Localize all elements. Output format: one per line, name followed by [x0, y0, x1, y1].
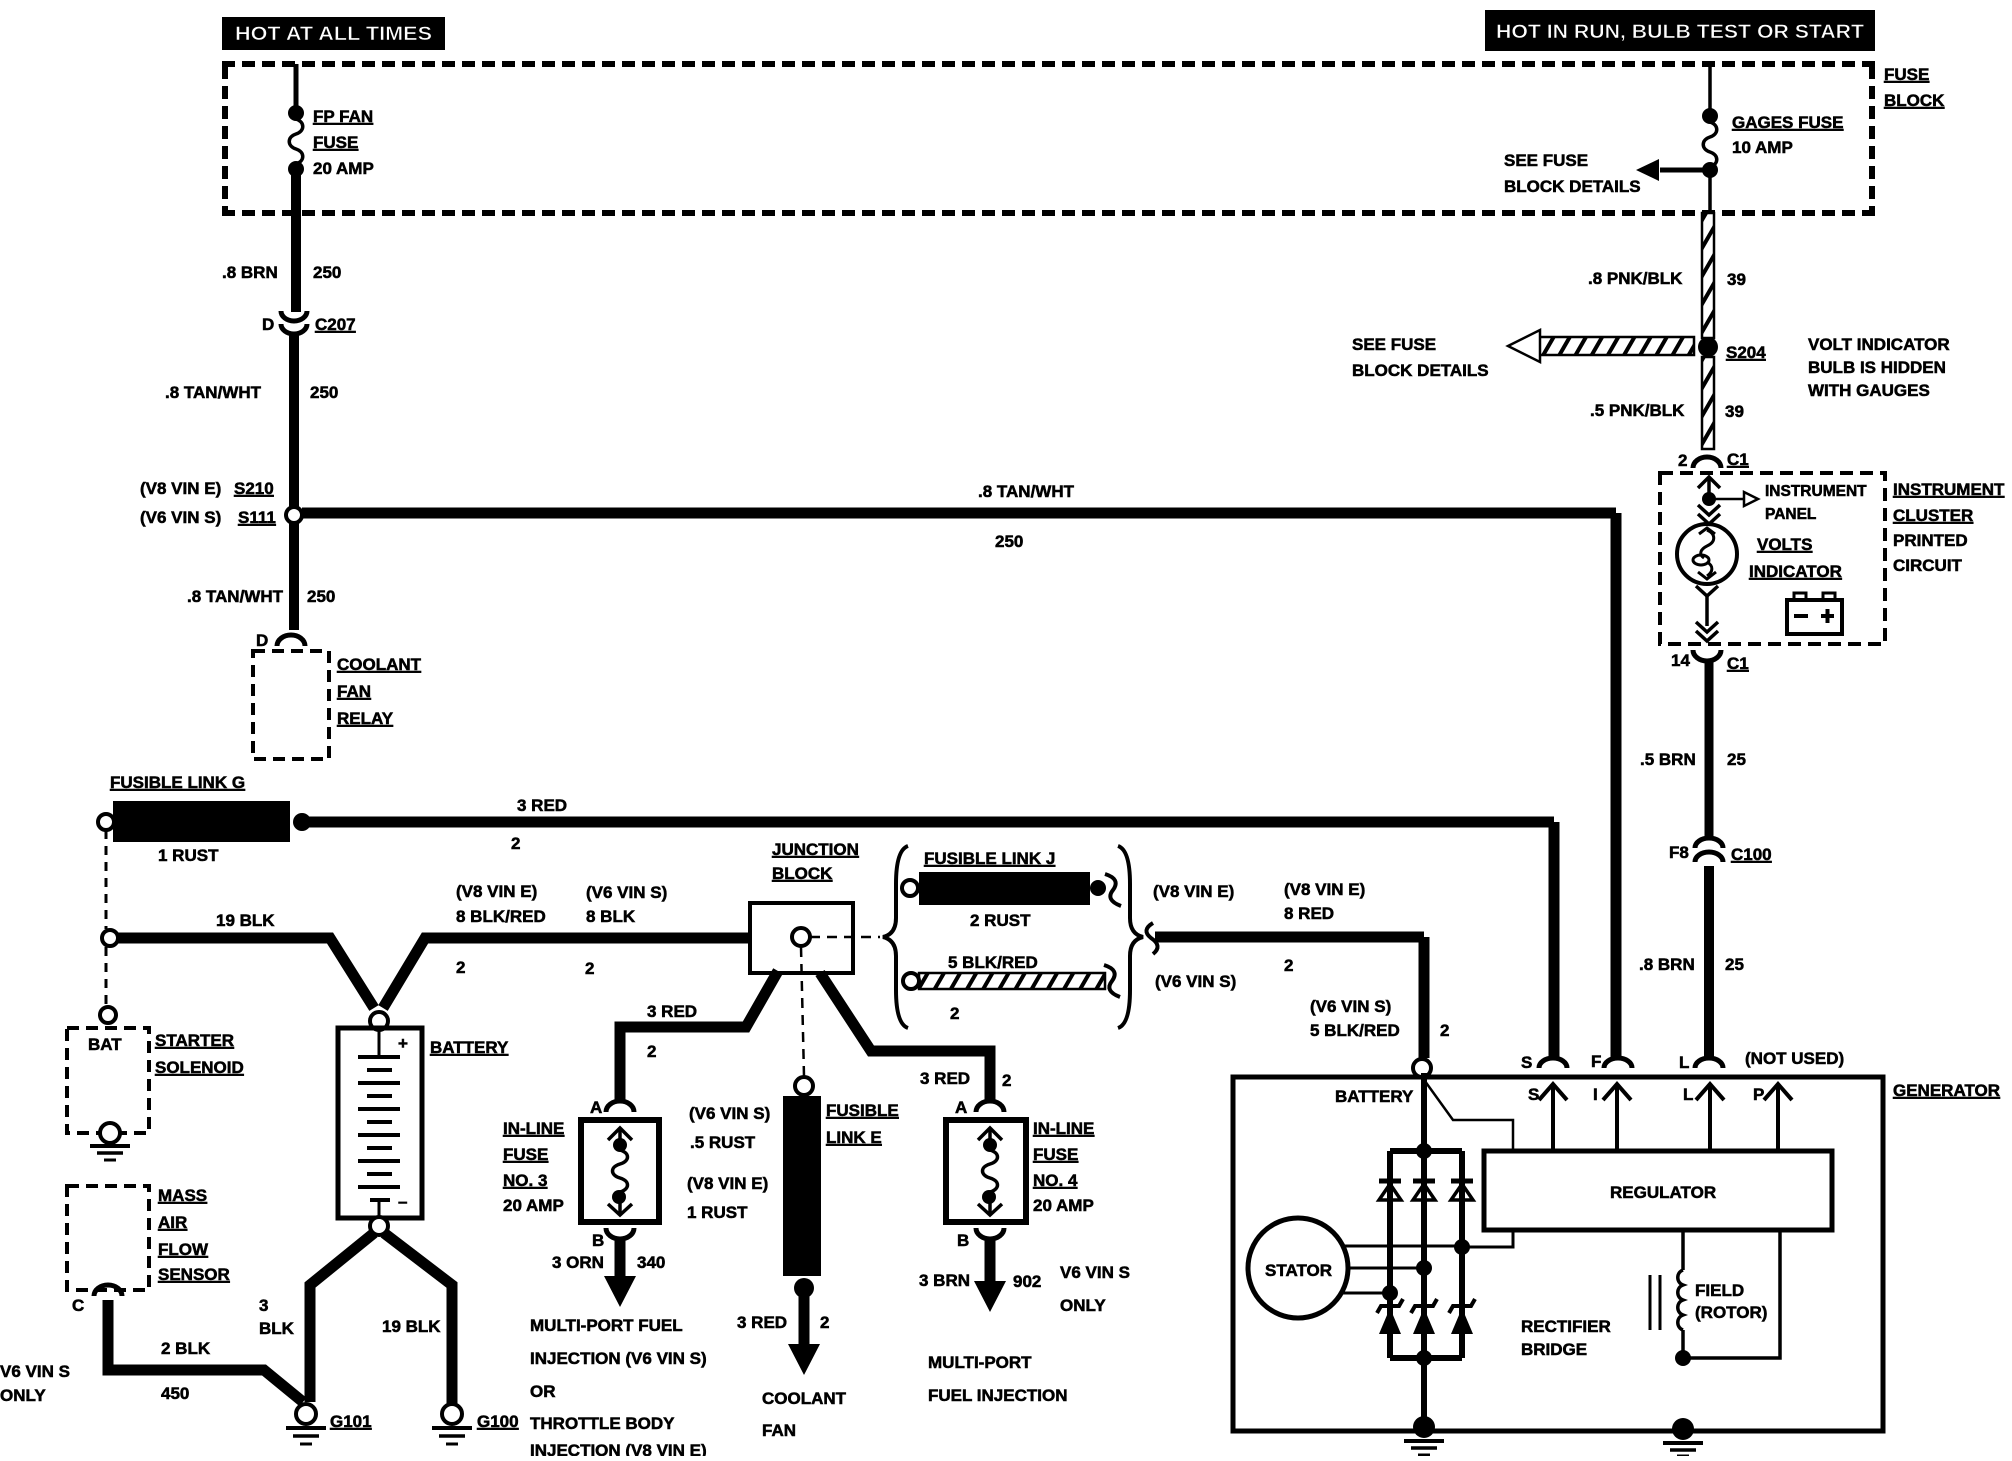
fusible link J (V8): [902, 849, 1121, 930]
svg-text:I: I: [1593, 1085, 1598, 1104]
svg-text:FAN: FAN: [337, 682, 371, 701]
svg-text:MASS: MASS: [158, 1186, 207, 1205]
svg-text:20 AMP: 20 AMP: [1033, 1196, 1094, 1215]
brace left (fusible link J group): [883, 846, 908, 1028]
stator winding wire 3: [1341, 1285, 1398, 1301]
rectifier bridge left leg: [1387, 1151, 1393, 1358]
svg-text:(V8 VIN E): (V8 VIN E): [456, 882, 537, 901]
svg-text:(V6 VIN S): (V6 VIN S): [140, 508, 221, 527]
svg-text:FAN: FAN: [762, 1421, 796, 1440]
svg-text:F8: F8: [1669, 843, 1689, 862]
svg-text:D: D: [262, 315, 274, 334]
svg-text:WITH GAUGES: WITH GAUGES: [1808, 381, 1930, 400]
svg-text:G100: G100: [477, 1412, 519, 1431]
svg-text:20 AMP: 20 AMP: [503, 1196, 564, 1215]
svg-text:C100: C100: [1731, 845, 1772, 864]
svg-text:20 AMP: 20 AMP: [313, 159, 374, 178]
fuse FP FAN 20A: [288, 64, 304, 216]
arrow see fuse block details (S204, striped): [1352, 330, 1694, 380]
svg-text:25: 25: [1727, 750, 1746, 769]
generator box: [1233, 1077, 2000, 1431]
wire .8 TAN/WHT 250 long run to generator F: [302, 482, 1616, 1058]
dashed wire junction to link J brace: [810, 936, 880, 939]
svg-text:250: 250: [307, 587, 335, 606]
svg-text:VOLTS: VOLTS: [1757, 535, 1812, 554]
instrument cluster dashed box: [1660, 473, 1885, 644]
svg-text:(V8 VIN E): (V8 VIN E): [1284, 880, 1365, 899]
svg-text:COOLANT: COOLANT: [337, 655, 422, 674]
terminal L: [1679, 1053, 1723, 1072]
splice S210 / S111: [140, 479, 302, 527]
connector D coolant fan relay: [256, 631, 305, 650]
wire 3 RED 2 long run to generator S: [308, 796, 1554, 1058]
svg-text:(V6 VIN S): (V6 VIN S): [1155, 972, 1236, 991]
wire .8 TAN/WHT 250 (upper): [165, 334, 338, 507]
hook brace to 8 RED wire: [1146, 923, 1157, 954]
svg-text:GENERATOR: GENERATOR: [1893, 1081, 2000, 1100]
svg-text:902: 902: [1013, 1272, 1041, 1291]
svg-text:FP FAN: FP FAN: [313, 107, 373, 126]
wire battery terminal to regulator: [1422, 1077, 1513, 1151]
svg-text:INSTRUMENT: INSTRUMENT: [1893, 480, 2005, 499]
fuse GAGES 10A: [1702, 64, 1718, 216]
svg-text:P: P: [1753, 1085, 1764, 1104]
node instrument panel feed: [1698, 477, 1867, 524]
wire .5 PNK/BLK 39 (striped): [1590, 357, 1744, 449]
ground G100: [432, 1404, 519, 1444]
diode 1: [1379, 1181, 1401, 1200]
svg-text:FLOW: FLOW: [158, 1240, 209, 1259]
svg-text:(V6 VIN S): (V6 VIN S): [586, 883, 667, 902]
svg-text:INJECTION (V8 VIN E): INJECTION (V8 VIN E): [530, 1441, 707, 1456]
terminal F: [1591, 1052, 1632, 1071]
svg-text:CLUSTER: CLUSTER: [1893, 506, 1973, 525]
svg-text:(V6 VIN S): (V6 VIN S): [689, 1104, 770, 1123]
label box HOT IN RUN, BULB TEST OR START: [1485, 10, 1875, 51]
ground (rectifier): [1404, 1416, 1444, 1455]
svg-text:2 BLK: 2 BLK: [161, 1339, 211, 1358]
wire 19 BLK / 8 BLK to junction block: [102, 882, 750, 1008]
svg-text:B: B: [592, 1231, 604, 1250]
svg-text:1 RUST: 1 RUST: [687, 1203, 748, 1222]
svg-text:BATTERY: BATTERY: [1335, 1087, 1414, 1106]
stator: [1248, 1218, 1348, 1318]
connector C1 pin 2: [1678, 450, 1749, 470]
dashed wire fusible link G to starter solenoid: [105, 830, 108, 1006]
svg-text:FUSIBLE LINK G: FUSIBLE LINK G: [110, 773, 245, 792]
terminal S: [1521, 1053, 1567, 1072]
wire .8 PNK/BLK 39 (striped): [1588, 213, 1746, 338]
svg-text:2: 2: [820, 1313, 829, 1332]
svg-text:L: L: [1683, 1085, 1693, 1104]
rectifier bridge top bus: [1390, 1143, 1462, 1159]
svg-text:–: –: [398, 1192, 407, 1211]
svg-text:3 RED: 3 RED: [920, 1069, 970, 1088]
diode 2: [1413, 1181, 1435, 1200]
zener diode 1: [1377, 1299, 1403, 1334]
svg-text:25: 25: [1725, 955, 1744, 974]
svg-text:.8 TAN/WHT: .8 TAN/WHT: [978, 482, 1075, 501]
svg-text:MULTI-PORT: MULTI-PORT: [928, 1353, 1032, 1372]
svg-text:FUEL INJECTION: FUEL INJECTION: [928, 1386, 1067, 1405]
svg-text:S210: S210: [234, 479, 274, 498]
svg-text:2: 2: [1284, 956, 1293, 975]
svg-text:IN-LINE: IN-LINE: [1033, 1119, 1094, 1138]
wire 19 BLK to G100: [382, 1233, 452, 1404]
svg-text:S: S: [1528, 1085, 1539, 1104]
wire .5 BRN 25: [1640, 661, 1746, 838]
node starter solenoid feed: [100, 1007, 116, 1023]
arrow 3 BRN 902 to fuel injection: [919, 1240, 1130, 1405]
svg-text:ONLY: ONLY: [1060, 1296, 1106, 1315]
svg-text:.5 PNK/BLK: .5 PNK/BLK: [1590, 401, 1685, 420]
junction block: [750, 840, 859, 973]
stator winding wire 2: [1348, 1260, 1432, 1276]
svg-text:BLOCK: BLOCK: [772, 864, 833, 883]
note volt indicator bulb: [1808, 335, 1950, 400]
svg-text:FUSE: FUSE: [503, 1145, 548, 1164]
coolant fan relay box: [253, 651, 422, 759]
connector C100 pin F8: [1669, 838, 1772, 864]
svg-text:G101: G101: [330, 1412, 372, 1431]
svg-text:2 RUST: 2 RUST: [970, 911, 1031, 930]
svg-text:S111: S111: [238, 508, 276, 527]
starter solenoid box: [67, 1028, 244, 1133]
svg-text:.8 BRN: .8 BRN: [1639, 955, 1695, 974]
wire .8 BRN 250: [222, 213, 341, 312]
svg-text:3 BRN: 3 BRN: [919, 1271, 970, 1290]
node battery terminal: [1335, 1059, 1431, 1106]
svg-text:(NOT USED): (NOT USED): [1745, 1049, 1844, 1068]
svg-text:BATTERY: BATTERY: [430, 1038, 509, 1057]
svg-text:(V6 VIN S): (V6 VIN S): [1310, 997, 1391, 1016]
svg-text:2: 2: [1002, 1071, 1011, 1090]
svg-text:340: 340: [637, 1253, 665, 1272]
in-line fuse no.3: [503, 1098, 659, 1250]
svg-text:INJECTION (V6 VIN S): INJECTION (V6 VIN S): [530, 1349, 707, 1368]
svg-text:SOLENOID: SOLENOID: [155, 1058, 244, 1077]
svg-text:LINK E: LINK E: [826, 1128, 882, 1147]
svg-text:3 RED: 3 RED: [647, 1002, 697, 1021]
connector pin C: [72, 1285, 122, 1315]
ground (field): [1663, 1418, 1703, 1456]
svg-text:STARTER: STARTER: [155, 1031, 234, 1050]
wire bulb to C1 pin 14: [1696, 586, 1718, 641]
svg-text:BLOCK DETAILS: BLOCK DETAILS: [1504, 177, 1641, 196]
svg-text:VOLT INDICATOR: VOLT INDICATOR: [1808, 335, 1950, 354]
svg-text:3 RED: 3 RED: [517, 796, 567, 815]
svg-text:HOT IN RUN, BULB TEST OR START: HOT IN RUN, BULB TEST OR START: [1496, 22, 1864, 43]
svg-text:C1: C1: [1727, 654, 1749, 673]
svg-text:5 BLK/RED: 5 BLK/RED: [1310, 1021, 1400, 1040]
fusible link E: [687, 1077, 899, 1298]
diode 3: [1451, 1181, 1473, 1200]
svg-text:14: 14: [1671, 651, 1690, 670]
svg-text:GAGES FUSE: GAGES FUSE: [1732, 113, 1843, 132]
svg-text:MULTI-PORT FUEL: MULTI-PORT FUEL: [530, 1316, 683, 1335]
svg-text:.8 BRN: .8 BRN: [222, 263, 278, 282]
svg-text:BRIDGE: BRIDGE: [1521, 1340, 1587, 1359]
svg-text:39: 39: [1727, 270, 1746, 289]
svg-text:REGULATOR: REGULATOR: [1610, 1183, 1716, 1202]
GAGES fuse labels: [1732, 113, 1843, 157]
instrument cluster label: [1893, 480, 2005, 575]
svg-text:2: 2: [456, 958, 465, 977]
svg-text:SEE FUSE: SEE FUSE: [1504, 151, 1588, 170]
svg-text:3 RED: 3 RED: [737, 1313, 787, 1332]
svg-text:D: D: [256, 631, 268, 650]
FP FAN fuse labels: [313, 107, 374, 178]
bulb volts indicator: [1677, 524, 1842, 584]
arrow 3 RED 2 to coolant fan: [737, 1294, 847, 1440]
svg-text:8 BLK/RED: 8 BLK/RED: [456, 907, 546, 926]
svg-text:NO. 3: NO. 3: [503, 1171, 547, 1190]
svg-text:2: 2: [1678, 451, 1687, 470]
battery icon (volts indicator): [1787, 593, 1842, 634]
svg-text:C1: C1: [1727, 450, 1749, 469]
svg-text:19 BLK: 19 BLK: [382, 1317, 441, 1336]
svg-text:PANEL: PANEL: [1765, 506, 1816, 523]
svg-text:HOT AT ALL TIMES: HOT AT ALL TIMES: [235, 24, 432, 45]
svg-text:1 RUST: 1 RUST: [158, 846, 219, 865]
svg-text:.5 BRN: .5 BRN: [1640, 750, 1696, 769]
wire 8 RED 2 to generator BAT: [1155, 880, 1449, 1058]
wire 2 BLK 450 to G101: [0, 1300, 303, 1405]
svg-text:INDICATOR: INDICATOR: [1749, 562, 1842, 581]
svg-text:(V8 VIN E): (V8 VIN E): [1153, 882, 1234, 901]
svg-text:IN-LINE: IN-LINE: [503, 1119, 564, 1138]
svg-text:BLOCK: BLOCK: [1884, 91, 1945, 110]
mass air flow sensor box: [67, 1186, 230, 1290]
battery: [338, 1012, 509, 1235]
regulator input arrow I: [1593, 1084, 1631, 1151]
svg-text:2: 2: [1440, 1021, 1449, 1040]
svg-text:FUSE: FUSE: [313, 133, 358, 152]
arrow see fuse block details (top): [1504, 151, 1710, 196]
svg-text:2: 2: [585, 959, 594, 978]
svg-text:B: B: [957, 1231, 969, 1250]
arrow 3 ORN 340 to fuel injection: [530, 1240, 707, 1460]
fuse block label: [1884, 65, 1945, 110]
svg-text:F: F: [1591, 1052, 1601, 1071]
svg-text:FUSIBLE: FUSIBLE: [826, 1101, 899, 1120]
svg-text:2: 2: [647, 1042, 656, 1061]
svg-text:FUSE: FUSE: [1033, 1145, 1078, 1164]
svg-text:3: 3: [259, 1296, 268, 1315]
svg-text:250: 250: [995, 532, 1023, 551]
field rotor coil: [1650, 1230, 1780, 1366]
fuse block dashed box: [222, 64, 1876, 213]
svg-text:STATOR: STATOR: [1265, 1261, 1332, 1280]
in-line fuse no.4: [946, 1098, 1094, 1250]
connector C207 pin D: [262, 311, 356, 334]
svg-text:.8 PNK/BLK: .8 PNK/BLK: [1588, 269, 1683, 288]
svg-text:+: +: [398, 1034, 408, 1053]
svg-text:V6 VIN S: V6 VIN S: [1060, 1263, 1130, 1282]
fusible link G: [98, 773, 311, 865]
svg-text:C207: C207: [315, 315, 356, 334]
svg-text:RECTIFIER: RECTIFIER: [1521, 1317, 1611, 1336]
regulator: [1484, 1151, 1832, 1230]
svg-text:250: 250: [310, 383, 338, 402]
labels V8/V6 options: [1153, 882, 1236, 991]
stator winding wire 1: [1343, 1230, 1513, 1255]
svg-text:S204: S204: [1726, 343, 1766, 362]
svg-text:OR: OR: [530, 1382, 556, 1401]
svg-text:(ROTOR): (ROTOR): [1695, 1303, 1767, 1322]
svg-text:ONLY: ONLY: [0, 1386, 46, 1405]
svg-text:RELAY: RELAY: [337, 709, 394, 728]
wire 3 RED 2 junction to fuse no.3: [620, 971, 778, 1102]
connector C1 pin 14: [1671, 650, 1749, 673]
svg-text:CIRCUIT: CIRCUIT: [1893, 556, 1963, 575]
svg-text:.8 TAN/WHT: .8 TAN/WHT: [187, 587, 284, 606]
rectifier bridge bottom bus: [1390, 1350, 1462, 1366]
svg-text:3 ORN: 3 ORN: [552, 1253, 604, 1272]
wire 5 BLK/RED (V6, striped): [903, 953, 1120, 1023]
svg-text:S: S: [1521, 1053, 1532, 1072]
zener diode 2: [1411, 1299, 1437, 1334]
zener diode 3: [1449, 1299, 1475, 1334]
svg-text:8 BLK: 8 BLK: [586, 907, 636, 926]
regulator input arrow L: [1683, 1084, 1724, 1151]
label box HOT AT ALL TIMES: [222, 17, 445, 50]
svg-text:A: A: [590, 1098, 602, 1117]
svg-text:NO. 4: NO. 4: [1033, 1171, 1078, 1190]
svg-text:PRINTED: PRINTED: [1893, 531, 1968, 550]
svg-text:5 BLK/RED: 5 BLK/RED: [948, 953, 1038, 972]
svg-text:SENSOR: SENSOR: [158, 1265, 230, 1284]
regulator input arrow P: [1753, 1084, 1792, 1151]
svg-text:V6 VIN S: V6 VIN S: [0, 1362, 70, 1381]
svg-text:19 BLK: 19 BLK: [216, 911, 275, 930]
ground (starter solenoid): [90, 1123, 130, 1160]
svg-text:BAT: BAT: [88, 1035, 122, 1054]
svg-text:BLK: BLK: [259, 1319, 295, 1338]
svg-text:450: 450: [161, 1384, 189, 1403]
wire .8 BRN 25 to generator L: [1639, 866, 1744, 1058]
svg-text:JUNCTION: JUNCTION: [772, 840, 859, 859]
dashed wire junction to fusible link E: [801, 947, 804, 1076]
svg-text:(V8 VIN E): (V8 VIN E): [687, 1174, 768, 1193]
svg-text:THROTTLE BODY: THROTTLE BODY: [530, 1414, 675, 1433]
svg-text:FUSIBLE LINK J: FUSIBLE LINK J: [924, 849, 1055, 868]
regulator input arrow S: [1528, 1084, 1567, 1151]
splice S204: [1698, 337, 1766, 362]
svg-text:BLOCK DETAILS: BLOCK DETAILS: [1352, 361, 1489, 380]
svg-text:L: L: [1679, 1053, 1689, 1072]
svg-text:A: A: [955, 1098, 967, 1117]
svg-text:FIELD: FIELD: [1695, 1281, 1744, 1300]
rectifier bridge right leg: [1459, 1151, 1465, 1358]
svg-text:.8 TAN/WHT: .8 TAN/WHT: [165, 383, 262, 402]
svg-text:COOLANT: COOLANT: [762, 1389, 847, 1408]
wire battery bus to ground: [1421, 1073, 1427, 1427]
svg-text:8 RED: 8 RED: [1284, 904, 1334, 923]
wire 3 BLK to G101: [259, 1233, 374, 1402]
svg-text:(V8 VIN E): (V8 VIN E): [140, 479, 221, 498]
svg-text:2: 2: [950, 1004, 959, 1023]
rectifier bridge label: [1521, 1317, 1611, 1359]
svg-text:FUSE: FUSE: [1884, 65, 1929, 84]
svg-text:SEE FUSE: SEE FUSE: [1352, 335, 1436, 354]
svg-text:10 AMP: 10 AMP: [1732, 138, 1793, 157]
wire .8 TAN/WHT 250 (below S111): [187, 523, 335, 630]
svg-text:2: 2: [511, 834, 520, 853]
svg-text:39: 39: [1725, 402, 1744, 421]
ground G101: [286, 1404, 372, 1444]
svg-text:INSTRUMENT: INSTRUMENT: [1765, 483, 1867, 500]
brace right (fusible link J group): [1118, 846, 1143, 1028]
svg-text:C: C: [72, 1296, 84, 1315]
svg-text:BULB IS HIDDEN: BULB IS HIDDEN: [1808, 358, 1946, 377]
svg-text:AIR: AIR: [158, 1213, 187, 1232]
svg-text:.5 RUST: .5 RUST: [690, 1133, 756, 1152]
svg-text:250: 250: [313, 263, 341, 282]
wire 3 RED 2 junction to fuse no.4: [820, 973, 1011, 1102]
